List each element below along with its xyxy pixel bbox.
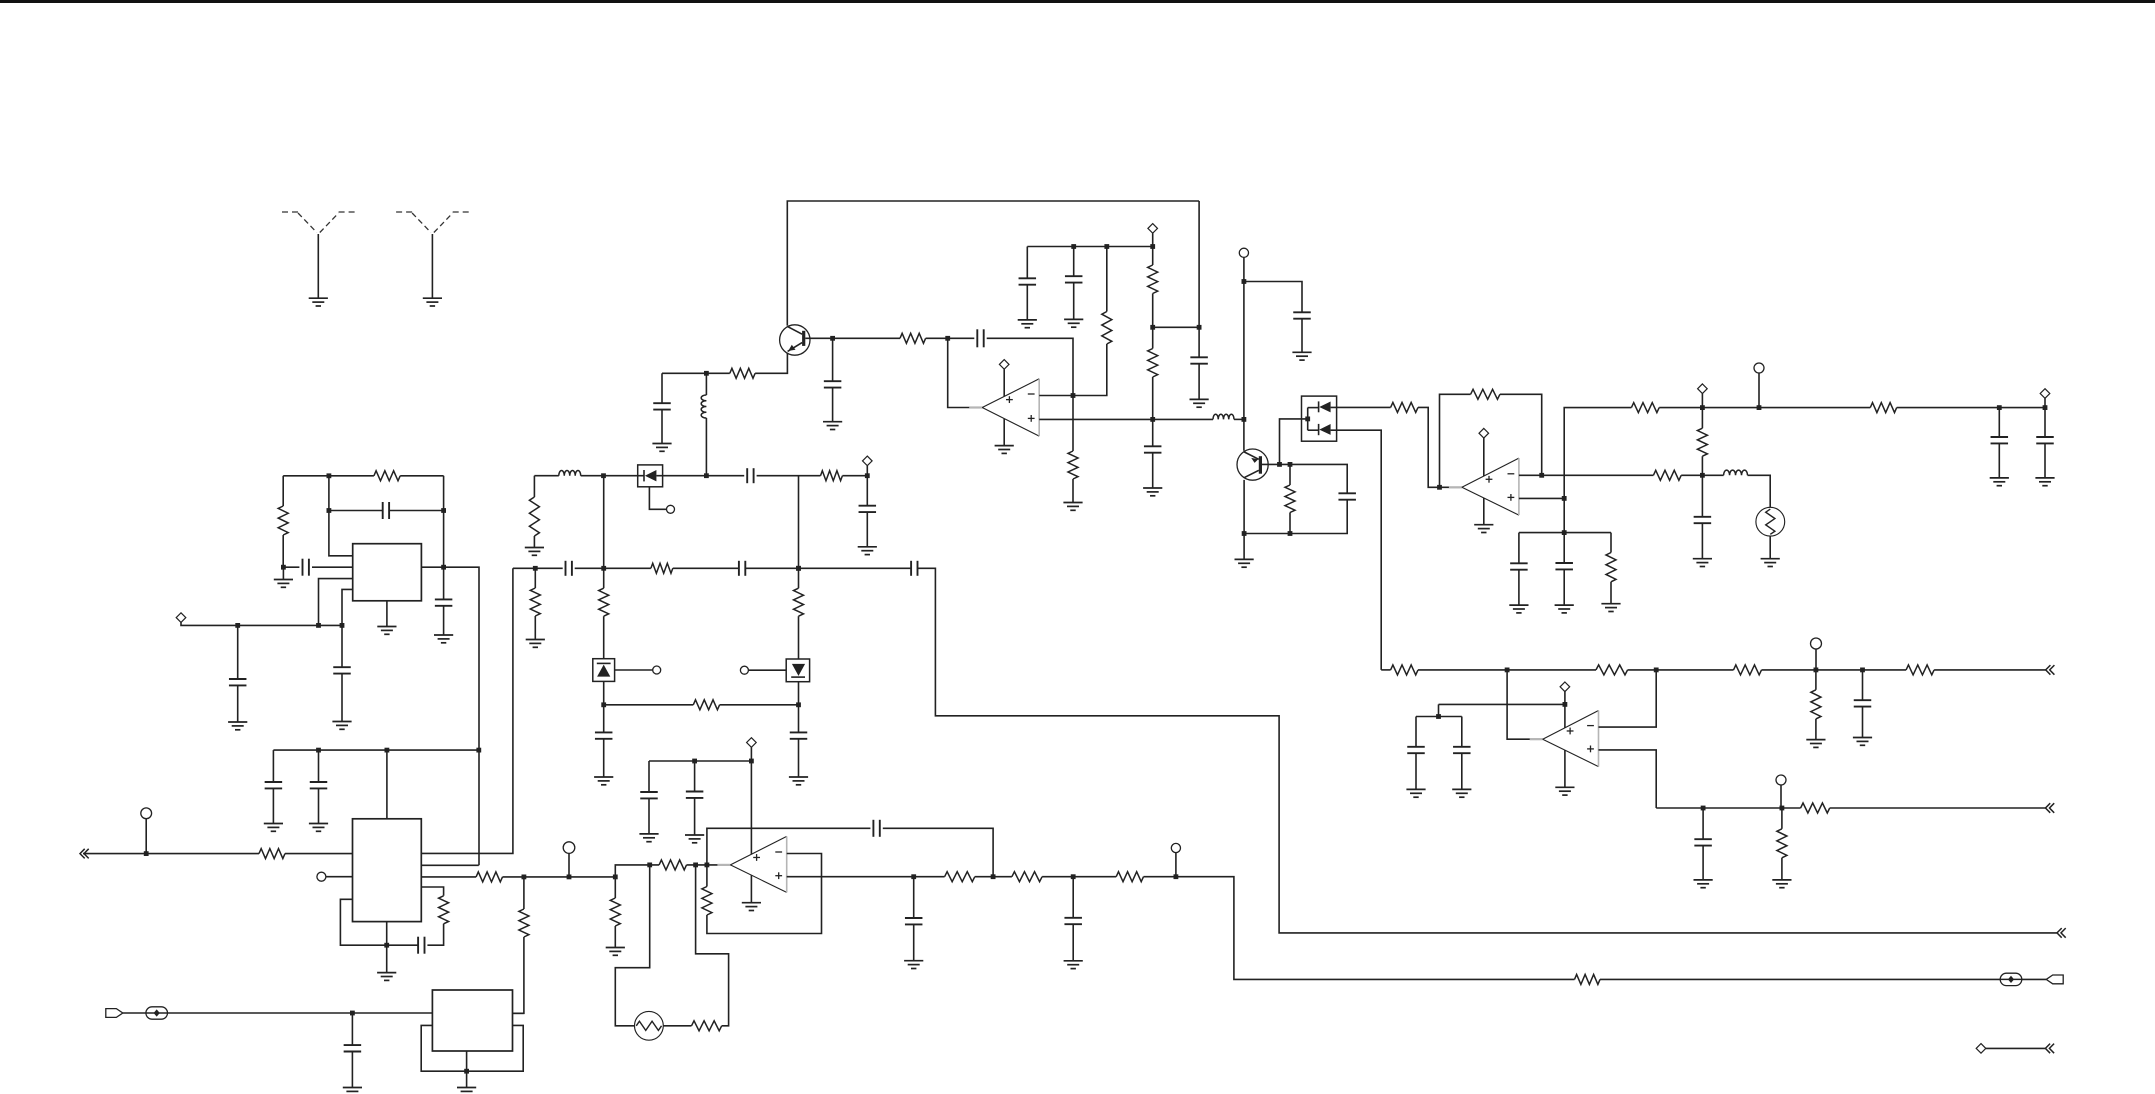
wire xyxy=(1073,283,1075,320)
ground xyxy=(1064,961,1083,969)
wire xyxy=(603,681,605,732)
resistor R3 xyxy=(259,849,285,859)
node junction xyxy=(1700,473,1705,478)
wire xyxy=(123,1012,146,1014)
wire long Z path xyxy=(917,568,2057,933)
wire IC1 pin C xyxy=(319,579,353,626)
node junction xyxy=(1437,485,1442,490)
node junction xyxy=(705,863,710,868)
resistor R8 xyxy=(530,588,540,616)
test point TP3 xyxy=(563,842,575,854)
ground xyxy=(457,1088,476,1094)
wire mixer line xyxy=(513,567,563,569)
wire xyxy=(282,535,284,567)
wire xyxy=(1175,853,1177,877)
power connector P7 xyxy=(2040,389,2050,399)
resistor R23 xyxy=(1653,470,1681,480)
wire IC1 pin D xyxy=(342,589,353,625)
ground xyxy=(858,547,877,555)
wire xyxy=(1106,247,1108,312)
ground xyxy=(1509,605,1528,613)
wire xyxy=(1198,201,1200,357)
ground xyxy=(823,422,842,430)
inductor L1 xyxy=(559,471,581,476)
resistor R35 xyxy=(659,860,686,870)
dual diode D4 xyxy=(1302,396,1337,441)
ground xyxy=(789,777,808,785)
node junction xyxy=(316,748,321,753)
resistor R31 xyxy=(1906,665,1934,675)
capacitor C17 xyxy=(653,403,671,409)
wire base line xyxy=(805,337,900,339)
capacitor C27 xyxy=(2036,437,2054,443)
resistor R39 xyxy=(945,872,975,882)
resistor R28 xyxy=(1391,665,1418,675)
wire inverting input xyxy=(1039,344,1107,396)
wire feedback cap branch xyxy=(707,828,871,865)
ground xyxy=(1235,559,1254,567)
wire xyxy=(1600,978,2001,980)
capacitor C11 xyxy=(739,561,745,576)
wire IC2 ground pin xyxy=(386,922,388,973)
ground xyxy=(1474,525,1493,533)
node junction xyxy=(1654,668,1659,673)
power connector P9 xyxy=(747,738,757,748)
wire photodiode lead xyxy=(649,487,666,510)
off-page connector xyxy=(2045,1044,2054,1054)
node junction xyxy=(567,875,572,880)
node junction xyxy=(1150,325,1155,330)
resistor R32 xyxy=(1811,690,1821,719)
wire xyxy=(1042,876,1116,878)
wire xyxy=(832,338,834,381)
wire xyxy=(1152,294,1154,349)
node junction xyxy=(749,759,754,764)
capacitor C5 xyxy=(333,667,351,673)
wire xyxy=(533,536,535,548)
node junction xyxy=(464,1069,469,1074)
wire xyxy=(661,410,663,444)
resistor R5 xyxy=(519,909,529,937)
resistor R13 xyxy=(821,471,843,481)
connector J2 xyxy=(2046,975,2063,984)
capacitor C36 xyxy=(686,792,704,798)
wire xyxy=(755,353,787,373)
wire IC2 pin bracket xyxy=(421,887,443,896)
test point TP7 xyxy=(1239,248,1248,257)
power connector P4 xyxy=(1148,224,1158,234)
wire xyxy=(1701,475,1703,517)
node junction xyxy=(1150,417,1155,422)
wire xyxy=(1701,408,1703,429)
ferrite bead FB1 xyxy=(146,1007,168,1019)
wire xyxy=(1769,536,1771,559)
wire xyxy=(1701,456,1703,475)
wire xyxy=(1815,719,1817,740)
capacitor C20 xyxy=(1019,278,1037,284)
wire supply stem xyxy=(750,747,752,854)
thermistor RT1 xyxy=(1756,507,1785,536)
capacitor C31 xyxy=(1854,700,1872,706)
node junction xyxy=(476,748,481,753)
capacitor C4 xyxy=(229,679,247,685)
wire xyxy=(534,568,536,588)
op-amp U4 xyxy=(969,379,1039,436)
wire xyxy=(1152,233,1154,246)
wire xyxy=(1748,475,1771,507)
resistor R1 xyxy=(374,471,400,481)
power connector P10 xyxy=(1976,1044,1986,1054)
ground xyxy=(377,973,396,981)
node junction xyxy=(1104,244,1109,249)
IC U3 xyxy=(432,990,512,1051)
wire xyxy=(975,876,1012,878)
wire xyxy=(503,876,616,878)
node junction xyxy=(1700,405,1705,410)
resistor R14 xyxy=(730,368,755,378)
ground xyxy=(332,722,351,730)
ground xyxy=(1853,738,1872,746)
capacitor C30 xyxy=(1694,517,1712,523)
wire supply stem lower xyxy=(1564,750,1566,787)
capacitor C37 xyxy=(873,820,879,837)
node junction xyxy=(1757,405,1762,410)
capacitor C6 xyxy=(265,782,283,788)
photodiode D3 xyxy=(638,465,663,487)
node junction xyxy=(796,566,801,571)
wire xyxy=(603,476,605,589)
wire IC1 top feedback rail xyxy=(283,475,374,477)
power connector P3 xyxy=(999,360,1009,370)
wire xyxy=(2044,398,2046,407)
node junction xyxy=(704,473,709,478)
wire xyxy=(1781,808,1783,829)
wire xyxy=(1500,394,1542,475)
test point TP5 xyxy=(740,666,748,674)
resistor R26 xyxy=(1606,553,1616,582)
wire xyxy=(1152,419,1154,446)
wire xyxy=(1301,319,1303,353)
node junction xyxy=(1505,668,1510,673)
wire xyxy=(145,819,147,854)
wire xyxy=(648,761,650,792)
wire xyxy=(603,616,605,659)
node junction xyxy=(613,875,618,880)
wire xyxy=(272,750,274,782)
ground xyxy=(1990,478,2009,486)
node junction xyxy=(796,702,801,707)
power connector P2 xyxy=(863,456,873,466)
resistor R17 xyxy=(1068,451,1078,479)
wire xyxy=(656,475,744,477)
wire xyxy=(1610,533,1612,553)
power connector P8 xyxy=(1560,682,1570,692)
ground xyxy=(1292,352,1311,360)
capacitor C23 xyxy=(1190,357,1208,363)
wire mid line xyxy=(1381,669,1390,671)
wire xyxy=(568,853,570,877)
wire xyxy=(705,418,707,476)
wire xyxy=(687,864,731,866)
wire emitter line xyxy=(662,372,730,374)
node junction xyxy=(144,851,149,856)
wire xyxy=(1073,247,1075,277)
wire jog xyxy=(615,865,659,877)
resistor R36 xyxy=(610,898,620,926)
wire xyxy=(1815,670,1817,690)
wire xyxy=(326,876,353,878)
wire xyxy=(1701,394,1703,408)
ground xyxy=(742,903,761,911)
wire non-inverting line xyxy=(1519,497,1564,499)
op-amp U6 xyxy=(1530,711,1599,767)
resistor R19 xyxy=(1148,349,1158,378)
resistor R7 xyxy=(651,563,673,573)
capacitor C39 xyxy=(1064,918,1082,924)
wire xyxy=(866,476,868,506)
wire right vertical xyxy=(443,476,445,567)
node junction xyxy=(2043,405,2048,410)
node junction xyxy=(522,875,527,880)
resistor R16 xyxy=(1102,312,1112,345)
wire xyxy=(798,739,800,777)
wire xyxy=(1072,396,1074,452)
test point TP4 xyxy=(653,666,661,674)
antenna AE2 xyxy=(396,212,469,298)
wire xyxy=(1862,707,1864,738)
wire xyxy=(285,853,353,855)
capacitor C15 xyxy=(747,468,753,483)
wire feedback xyxy=(1440,394,1471,487)
node junction xyxy=(385,748,390,753)
capacitor C35 xyxy=(640,792,658,798)
wire xyxy=(312,566,353,568)
ground under antenna AE1 xyxy=(309,298,328,306)
node junction xyxy=(1305,417,1310,422)
wire xyxy=(1830,807,2046,809)
wire xyxy=(1780,785,1782,808)
wire to IC1 pin A xyxy=(329,511,353,556)
wire xyxy=(832,388,834,422)
capacitor C33 xyxy=(1453,747,1471,753)
ground xyxy=(2035,478,2054,486)
node junction xyxy=(1288,462,1293,467)
wire xyxy=(614,877,616,898)
ground xyxy=(377,627,396,635)
node junction xyxy=(1150,244,1155,249)
node junction xyxy=(1701,806,1706,811)
wire opto bias line xyxy=(604,704,694,706)
transistor Q2 xyxy=(1237,449,1268,480)
inductor L2 xyxy=(701,395,706,418)
ground xyxy=(1063,503,1082,511)
opto LED D2 xyxy=(786,659,809,682)
wire xyxy=(272,788,274,823)
test point TP10 xyxy=(1776,775,1786,785)
capacitor C24 xyxy=(1293,312,1311,318)
ground xyxy=(1694,880,1713,888)
capacitor C2 xyxy=(383,502,389,519)
node junction xyxy=(647,863,652,868)
wire supply branch xyxy=(649,760,751,762)
wire xyxy=(696,865,729,1026)
capacitor C7 xyxy=(310,782,328,788)
node junction xyxy=(1174,874,1179,879)
resistor R37 xyxy=(692,1021,722,1031)
node junction xyxy=(1563,702,1568,707)
test point TP11 xyxy=(1171,843,1180,852)
wire supply rail 2 xyxy=(1027,246,1152,248)
wire xyxy=(1610,582,1612,604)
capacitor C14 xyxy=(790,732,808,738)
wire xyxy=(987,338,1073,395)
wire xyxy=(745,567,911,569)
wire xyxy=(237,685,239,722)
op-amp U7 xyxy=(717,836,786,892)
wire xyxy=(575,567,651,569)
wire thermistor loop xyxy=(615,865,649,1026)
wire IC3 right pin xyxy=(513,1012,524,1014)
wire xyxy=(1072,877,1074,918)
power connector P1 xyxy=(176,613,186,623)
ground xyxy=(526,640,545,648)
wire xyxy=(748,669,786,671)
wire left drop xyxy=(282,476,284,506)
wire xyxy=(1072,924,1074,961)
wire xyxy=(1144,877,1575,980)
wire xyxy=(443,606,445,635)
wire xyxy=(1418,407,1462,487)
resistor R24 xyxy=(1631,403,1659,413)
wire xyxy=(1659,407,1870,409)
ground xyxy=(904,961,923,969)
connector J1 xyxy=(106,1009,123,1018)
wire xyxy=(1289,513,1291,534)
wire xyxy=(237,625,239,679)
ground xyxy=(1143,488,1162,496)
wire xyxy=(1701,523,1703,559)
node junction xyxy=(704,371,709,376)
resistor R9 xyxy=(529,497,539,536)
wire xyxy=(1862,670,1864,700)
resistor R22 xyxy=(1471,389,1500,399)
node junction xyxy=(441,565,446,570)
off-page connector xyxy=(2046,803,2055,813)
wire xyxy=(351,1052,353,1088)
capacitor C8 xyxy=(418,937,424,954)
wire xyxy=(603,739,605,777)
resistor R11 xyxy=(693,700,719,710)
wire supply stem xyxy=(1483,438,1485,476)
ground xyxy=(685,835,704,843)
wire IC2 pin xyxy=(421,864,479,866)
transistor Q1 xyxy=(780,325,810,355)
wire IC3 ground pin xyxy=(466,1051,468,1088)
node junction xyxy=(830,336,835,341)
resistor R27 xyxy=(1697,428,1707,456)
ground xyxy=(1772,880,1791,888)
wire xyxy=(926,337,975,339)
wire output line xyxy=(1656,807,1800,809)
test point TP6 xyxy=(667,505,675,513)
wire xyxy=(694,798,696,835)
wire xyxy=(1998,443,2000,478)
wire xyxy=(167,1012,432,1014)
wire xyxy=(1998,408,2000,437)
node junction xyxy=(1288,531,1293,536)
wire xyxy=(614,926,616,948)
wire IC2 pin to long vertical xyxy=(421,568,513,853)
node junction xyxy=(1071,393,1076,398)
wire xyxy=(1762,669,1907,671)
wire non-inverting input xyxy=(1599,750,1657,808)
wire xyxy=(866,512,868,547)
wire xyxy=(1519,532,1611,534)
wire xyxy=(329,510,383,512)
wire xyxy=(720,704,799,706)
wire xyxy=(1416,716,1462,718)
ground xyxy=(434,635,453,643)
wire xyxy=(798,682,800,733)
off-page connector xyxy=(2057,928,2066,938)
wire op-amp1 output xyxy=(948,338,983,407)
node junction xyxy=(281,565,286,570)
wire supply stem lower xyxy=(1483,498,1485,525)
resistor R20 xyxy=(1285,485,1295,513)
ground xyxy=(594,777,613,785)
dual diode internal wiring xyxy=(1308,401,1331,435)
ground xyxy=(525,548,544,556)
capacitor C28 xyxy=(1510,563,1528,569)
ground under antenna AE2 xyxy=(423,298,442,306)
wire supply stem lower xyxy=(1003,419,1005,446)
wire xyxy=(661,373,663,403)
wire xyxy=(523,877,525,909)
ground xyxy=(1555,605,1574,613)
capacitor C1 xyxy=(303,559,309,576)
node junction xyxy=(235,623,240,628)
wire xyxy=(340,899,418,945)
wire lower anode xyxy=(1331,430,1382,670)
wire RF line xyxy=(534,475,558,477)
test point TP9 xyxy=(1811,638,1822,649)
resistor R6 xyxy=(439,896,449,924)
off-page connector input xyxy=(80,849,89,859)
wire xyxy=(581,475,644,477)
wire xyxy=(694,761,696,792)
wire xyxy=(1198,364,1200,400)
wire xyxy=(866,466,868,476)
wire xyxy=(1897,407,2045,409)
node junction xyxy=(441,508,446,513)
ground xyxy=(1761,559,1780,567)
wire xyxy=(1438,704,1440,716)
off-page connector xyxy=(2046,665,2055,675)
wire xyxy=(533,476,535,497)
wire op-amp4 output xyxy=(1507,670,1543,739)
ground xyxy=(1555,787,1574,795)
resistor R15 xyxy=(900,333,926,343)
node junction xyxy=(384,943,389,948)
ground xyxy=(228,722,247,730)
resistor R12 xyxy=(794,588,804,616)
wire supply stem lower xyxy=(750,875,752,903)
ground xyxy=(1806,740,1825,748)
wire xyxy=(663,1025,691,1027)
ground xyxy=(606,948,625,956)
IC U2 xyxy=(353,819,422,922)
node junction xyxy=(1242,531,1247,536)
